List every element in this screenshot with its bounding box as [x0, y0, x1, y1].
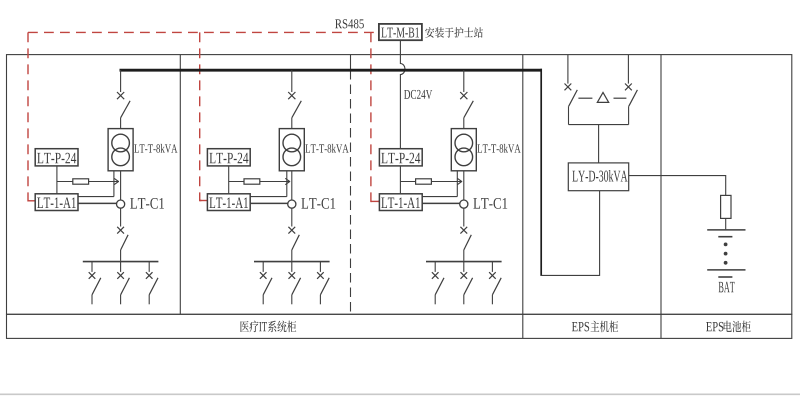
label LT-P-24 (section 3) [381, 153, 420, 164]
wire EPS switch 2 down [628, 106, 630, 124]
note 安装于护士站 [425, 27, 434, 38]
wire LT-P-24 to LT-1-A1 (section 2) [228, 166, 230, 194]
breaker Q2a contact X [288, 227, 295, 234]
wire tap to LT-1-A1 (section 3) [422, 196, 457, 198]
wire EPS return riser [599, 191, 601, 276]
wire node LT-C1 to breaker Q3a [463, 208, 465, 226]
node LT-C1 (section 1) [117, 200, 125, 208]
fuse F3 [416, 179, 432, 184]
wire breaker Q3 to transformer T3 [463, 118, 465, 129]
wire LT-1-A1 to node LT-C1 (section 1) [78, 202, 117, 204]
wire node LT-C1 to breaker Q1a [120, 208, 122, 226]
label LT-M-B1 [381, 28, 419, 38]
busbar main (thick) [120, 69, 542, 72]
wire transformer T3 tap down [456, 171, 458, 197]
wire tap to LT-1-A1 (section 1) [78, 196, 114, 198]
wire breaker Q1a to distribution bar [120, 250, 122, 261]
wire breaker Q2 to transformer T2 [291, 118, 293, 129]
wire tap to LT-1-A1 (section 2) [250, 196, 287, 198]
distribution bar (section 1) [83, 261, 159, 263]
wire top border to EPS switch 1 [567, 55, 569, 84]
label LY-D-30kVA [572, 170, 627, 182]
breaker Q1a blade [121, 235, 129, 250]
branch breaker Q2-1 [260, 262, 272, 305]
wire EPS return bottom [541, 274, 599, 276]
wire transformer T2 secondary main [291, 171, 293, 200]
branch breaker Q2-2 [289, 262, 301, 305]
transformer T3 LT-T-8kVA [451, 129, 476, 171]
fuse F1 wire with arrow [57, 181, 119, 183]
wire busbar to breaker Q1 [120, 70, 122, 92]
breaker Q1 blade [121, 101, 131, 118]
wire LT-M-B1 drop DC24V with busbar jump [400, 40, 405, 149]
wire LT-P-24 to LT-1-A1 (section 1) [56, 166, 58, 194]
label LT-P-24 (section 1) [37, 153, 76, 164]
fuse F2 [244, 179, 260, 184]
battery BAT symbol [707, 230, 745, 277]
transformer T1 LT-T-8kVA [108, 129, 133, 171]
branch breaker Q3-3 [489, 262, 501, 305]
wire transformer T3 secondary main [463, 171, 465, 200]
breaker Q2a blade [292, 235, 300, 250]
power supply box LT-P-24 (section 2) [207, 149, 250, 166]
breaker Q1a contact X [117, 227, 124, 234]
EPS switch 2 contact X [625, 84, 632, 91]
breaker Q3 blade [464, 101, 474, 118]
wire EPS switch 1 down [568, 106, 570, 124]
wire top border to EPS switch 2 [627, 55, 629, 84]
wire breaker Q2a to distribution bar [291, 250, 293, 261]
branch breaker Q1-2 [117, 262, 129, 305]
branch breaker Q1-1 [89, 262, 101, 305]
branch breaker Q3-1 [432, 262, 444, 305]
EPS switch 1 blade [569, 90, 578, 106]
monitor box LT-1-A1 (section 2) [207, 194, 250, 211]
wire LT-P-24 to LT-1-A1 (section 3) [399, 166, 401, 194]
wire breaker Q1 to transformer T1 [120, 118, 122, 129]
label LT-C1 (section 1) [130, 198, 164, 209]
breaker Q3a blade [464, 235, 472, 250]
cabinet label 医疗IT系统柜 [240, 321, 249, 332]
delta winding symbol [597, 92, 608, 102]
wire LT-1-A1 to node LT-C1 (section 2) [250, 202, 288, 204]
EPS box LY-D-30kVA [568, 163, 628, 191]
wire transformer T1 secondary main [120, 171, 122, 200]
wire breaker Q3a to distribution bar [463, 250, 465, 261]
distribution bar (section 2) [254, 261, 330, 263]
wire busbar to breaker Q2 [291, 70, 293, 92]
fuse F-BAT [721, 195, 731, 218]
wire bridge to LY-D-30kVA [598, 125, 600, 163]
fuse F2 wire with arrow [229, 181, 291, 183]
value label LT-T-8kVA T3 [477, 144, 520, 153]
distribution bar (section 3) [426, 261, 502, 263]
cabinet label EPS主机柜 [572, 322, 589, 331]
label LT-1-A1 (section 3) [381, 197, 420, 208]
busbar feeder to EPS (thick drop) [540, 69, 542, 276]
net RS485 bus (red dashed) [28, 32, 379, 201]
monitor box LT-M-B1 [379, 24, 422, 40]
wire node LT-C1 to breaker Q2a [291, 208, 293, 226]
dash left of delta [578, 97, 592, 99]
label RS485 [335, 19, 364, 28]
power supply box LT-P-24 (section 3) [379, 149, 422, 166]
label LT-C1 (section 3) [473, 198, 507, 209]
label BAT [719, 282, 735, 293]
wire transformer T2 tap down [286, 171, 288, 197]
wire busbar to breaker Q3 [463, 70, 465, 92]
wire fuse to battery [725, 218, 727, 229]
node LT-C1 (section 2) [288, 200, 296, 208]
power supply box LT-P-24 (section 1) [35, 149, 78, 166]
branch breaker Q1-3 [146, 262, 158, 305]
breaker Q3 contact X [460, 92, 467, 99]
label DC24V [404, 90, 432, 99]
EPS switch 1 contact X [565, 84, 572, 91]
label LT-P-24 (section 2) [209, 153, 248, 164]
breaker Q1 contact X [117, 92, 124, 99]
label LT-C1 (section 2) [301, 198, 335, 209]
EPS switch 2 blade [629, 90, 638, 106]
wire transformer T1 tap down [113, 171, 115, 197]
breaker Q2 contact X [288, 92, 295, 99]
transformer T2 LT-T-8kVA [279, 129, 304, 171]
value label LT-T-8kVA T2 [305, 144, 348, 153]
branch breaker Q2-3 [317, 262, 329, 305]
value label LT-T-8kVA T1 [134, 144, 177, 153]
breaker Q3a contact X [460, 227, 467, 234]
wire LY-D-30kVA to battery cabinet [629, 176, 726, 196]
wire LT-1-A1 to node LT-C1 (section 3) [422, 202, 460, 204]
monitor box LT-1-A1 (section 3) [379, 194, 422, 211]
label LT-1-A1 (section 2) [209, 197, 248, 208]
node LT-C1 (section 3) [460, 200, 468, 208]
fuse F1 [73, 179, 89, 184]
cabinet label EPS电池柜 [706, 322, 723, 331]
branch breaker Q3-2 [461, 262, 473, 305]
monitor box LT-1-A1 (section 1) [35, 194, 78, 211]
label LT-1-A1 (section 1) [37, 197, 76, 208]
fuse F3 wire with arrow [400, 181, 462, 183]
breaker Q2 blade [292, 101, 302, 118]
wire EPS bridge bottom [569, 124, 629, 126]
dash right of delta [614, 97, 627, 99]
